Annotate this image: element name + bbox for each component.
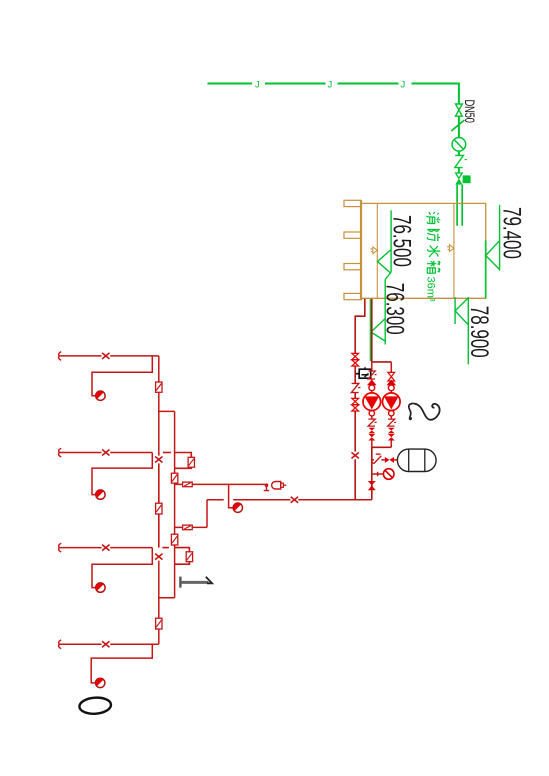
wire: green supply pipe J segment 2	[265, 83, 326, 85]
wire: green supply pipe J segment 4 with corner down	[412, 84, 459, 104]
tank suction pipe 1 (bypass) from tank bottom	[355, 299, 365, 354]
gate valve on discharge drop	[368, 481, 376, 490]
riser A valve X below floor 2	[155, 554, 162, 560]
pump 1 inlet joint circle	[369, 385, 375, 391]
floor sleeve on riser B lower	[171, 534, 177, 545]
floor 3 hydrant drop pipe	[92, 453, 152, 495]
elevation marker 76.300: reference line to suction header	[369, 299, 371, 361]
drop to hydrant beside pumps	[229, 484, 234, 507]
pump 1 branch pipe top	[371, 362, 373, 371]
fire hydrant floor 2	[96, 583, 105, 592]
riser A to B upper connector	[159, 410, 175, 412]
pump main riser connector	[175, 500, 207, 528]
riser A to B lower connector	[159, 597, 175, 599]
floor sleeve on riser B upper	[171, 473, 177, 483]
gate valve pump 1 outlet	[368, 434, 375, 441]
floor 4 branch pipe	[59, 355, 159, 357]
branch to pressure tank	[372, 459, 374, 461]
hose connection symbol floor 3	[188, 457, 194, 467]
wire: green pipe between gate valve and check valve	[458, 116, 460, 137]
valve: green gate valve on supply drop	[456, 104, 463, 116]
test hydrant tap symbol	[265, 483, 269, 487]
flexible Z joint pump 2 outlet	[388, 419, 396, 426]
svg-text:76.500: 76.500	[388, 215, 415, 267]
floor 4 hydrant drop pipe	[92, 356, 152, 396]
floor 1 branch pipe	[59, 643, 159, 645]
pressure gauge stem	[372, 472, 384, 476]
svg-text:76.300: 76.300	[381, 283, 408, 335]
test fire hydrant capsule symbol	[272, 482, 281, 490]
hose connection symbol on pump connector	[183, 525, 193, 530]
elevation marker 76.500: leader line	[390, 210, 392, 272]
wire: green pipe below meter	[458, 151, 460, 155]
elevation marker 79.400: triangle	[486, 241, 500, 270]
floor 3 branch pipe	[59, 452, 152, 454]
wire: green supply pipe J segment 3	[338, 83, 399, 85]
tank label 消 (stylized strokes)	[426, 212, 440, 224]
gate valve pump 2 inlet	[388, 372, 395, 381]
elevation marker 79.400: green overlay on tank right wall	[485, 240, 487, 298]
riser A segment floors 2-1	[158, 561, 160, 645]
elevation marker 76.300: triangle	[371, 319, 385, 342]
floor 1 branch end hook	[59, 640, 62, 649]
valve X on floor 1 branch	[102, 641, 109, 647]
floor sleeve on riser A (4-3)	[156, 382, 162, 392]
floor sleeve on riser A (3-2)	[156, 503, 162, 514]
check valve pump 2 outlet	[388, 428, 395, 434]
valve X on floor 2 branch	[102, 545, 109, 551]
svg-text:J: J	[255, 79, 260, 90]
svg-text:79.400: 79.400	[498, 207, 525, 259]
fire hydrant floor 3	[96, 490, 105, 499]
fire pump 1	[371, 391, 373, 393]
bypass pipe mid 2	[354, 393, 356, 399]
pump suction header	[372, 361, 392, 363]
wire: green pipe below Z joint	[458, 168, 460, 173]
fire hydrant at pump room	[233, 503, 242, 512]
floor 1 hydrant drop pipe	[91, 644, 152, 683]
wire: green double drop pipes into tank	[457, 185, 462, 226]
numeral 0 (stylized ellipse) at bottom	[79, 697, 112, 715]
pressure tank inner line 2	[424, 449, 426, 471]
floor 2 branch end hook	[59, 543, 62, 552]
floor 4 branch end hook	[59, 352, 62, 361]
elevation marker 78.900: leader line	[467, 297, 469, 364]
pump 2 branch pipe top	[390, 362, 392, 373]
water level symbol on left inner wall	[373, 247, 378, 254]
pump 1 outlet joint circle	[369, 411, 374, 416]
water level symbol on right inner wall	[449, 245, 454, 252]
flexible Z joint pump 1 outlet	[368, 419, 376, 426]
flow switch (black) on suction bypass	[355, 373, 359, 375]
gate valve pump 2 outlet	[388, 434, 395, 441]
test hydrant line from riser B	[175, 483, 266, 485]
elevation marker 78.900: triangle	[455, 298, 468, 325]
pump suction main horizontal	[207, 499, 372, 501]
pump 2 outlet joint circle	[389, 411, 394, 416]
tank leg 3	[344, 264, 361, 270]
tank label 水 (stylized strokes)	[428, 245, 441, 257]
pressure tank (black capsule)	[397, 449, 436, 471]
svg-text:J: J	[401, 79, 406, 90]
tank label 箱 (stylized strokes)	[427, 261, 441, 273]
floor 3 branch end hook	[59, 448, 62, 457]
numeral 2 (stylized) near pumps	[409, 403, 417, 419]
fire hydrant floor 4	[96, 391, 105, 400]
flexible Z joint on bypass	[351, 383, 360, 392]
pump 2 outlet pipe	[390, 416, 392, 419]
valve X on floor 3 branch	[102, 450, 109, 456]
tank outline: fire water tank 消防水箱	[361, 203, 486, 298]
tank left wall (bottom of tank in unrotated view)	[360, 200, 362, 300]
floor 3 branch dashed crossing	[163, 452, 171, 454]
floor 2 right stub branch with hose connection	[175, 548, 190, 565]
tank inner wall line right	[453, 203, 455, 298]
svg-text:78.900: 78.900	[465, 306, 492, 358]
elevation marker 76.500: triangle	[378, 250, 392, 274]
tank label 防 (stylized strokes)	[427, 230, 440, 242]
check valve pump 1 outlet	[368, 428, 375, 434]
discharge drop pipe	[371, 447, 373, 500]
floor 3 right stub branch with hose connection	[175, 453, 192, 469]
tank leg 4	[344, 293, 361, 299]
pressure tank inner line 1	[408, 449, 410, 471]
valve: green float valve with box	[456, 173, 463, 178]
pump 1 outlet pipe	[371, 416, 373, 419]
elevation marker 79.400: leader line	[499, 205, 501, 271]
valve X on pump main	[291, 497, 298, 503]
valve X on floor 4 branch	[102, 353, 109, 359]
elevation marker 78.900: reference line below tank	[454, 297, 456, 324]
floor sleeve on riser A (2-1)	[156, 618, 162, 629]
pump 2 inlet joint circle	[388, 385, 394, 391]
flexible Z joint pump 1 inlet	[368, 371, 376, 379]
floor 2 hydrant drop pipe	[92, 548, 152, 588]
gate valve to pressure tank	[385, 457, 394, 463]
svg-text:J: J	[328, 79, 333, 90]
pressure gauge	[383, 469, 394, 480]
hose connection symbol on test line	[183, 482, 193, 487]
tank suction pipe 2 to pump header	[371, 299, 373, 362]
hose connection symbol floor 2	[186, 552, 192, 562]
double gate valves on bypass upper	[352, 353, 359, 359]
meter: green water meter circle	[452, 138, 466, 152]
bypass pipe mid 1	[354, 366, 356, 383]
fire hydrant floor 1	[96, 678, 105, 687]
tank leg 2	[344, 232, 361, 238]
elevation marker 76.300: leader line	[384, 280, 386, 345]
svg-text:36m³: 36m³	[425, 277, 437, 302]
valve: green swing check valve	[452, 120, 465, 131]
joint: green flexible Z joint	[455, 155, 464, 167]
riser A segment floors 4-3	[158, 356, 160, 453]
floor 2 branch dashed crossing	[162, 547, 169, 549]
riser A valve X below floor 3	[155, 453, 162, 548]
numeral 1 (stylized) near riser	[179, 577, 181, 588]
pump 2 inlet reducer	[387, 380, 395, 384]
floor 2 branch pipe	[59, 547, 152, 549]
bypass pipe long run down	[354, 411, 356, 500]
pump 2 branch pipe bottom	[390, 441, 392, 448]
tank inner wall line left	[376, 203, 378, 298]
fire pump 2	[390, 391, 392, 393]
tank leg 1	[344, 200, 361, 206]
wire: green municipal supply pipe J segment 1	[208, 83, 253, 85]
elevation marker 76.500: jog to 76.300 leader	[385, 272, 391, 280]
svg-text:DN50: DN50	[462, 100, 478, 124]
pump discharge header	[372, 446, 392, 448]
pump 1 branch pipe bottom	[371, 441, 373, 448]
pump 1 inlet reducer	[368, 379, 376, 385]
riser B main vertical	[174, 411, 176, 597]
valve X on bypass	[352, 452, 359, 458]
double gate valves on bypass lower	[352, 398, 359, 404]
swing check valve to pressure tank	[372, 454, 381, 463]
